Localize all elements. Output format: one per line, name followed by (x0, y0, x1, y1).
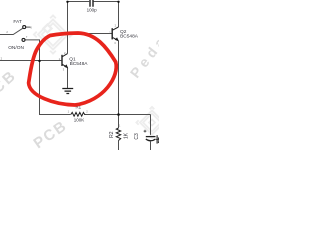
svg-text:100K: 100K (74, 118, 85, 123)
svg-text:BC548A: BC548A (120, 34, 139, 40)
svg-text:R2: R2 (109, 131, 115, 138)
svg-text:BC548A: BC548A (70, 61, 89, 67)
svg-text:C3: C3 (134, 133, 140, 140)
svg-text:1K: 1K (123, 132, 129, 139)
svg-text:FAT: FAT (13, 19, 22, 25)
svg-text:ON/ON: ON/ON (8, 45, 24, 51)
svg-text:100p: 100p (87, 7, 98, 12)
